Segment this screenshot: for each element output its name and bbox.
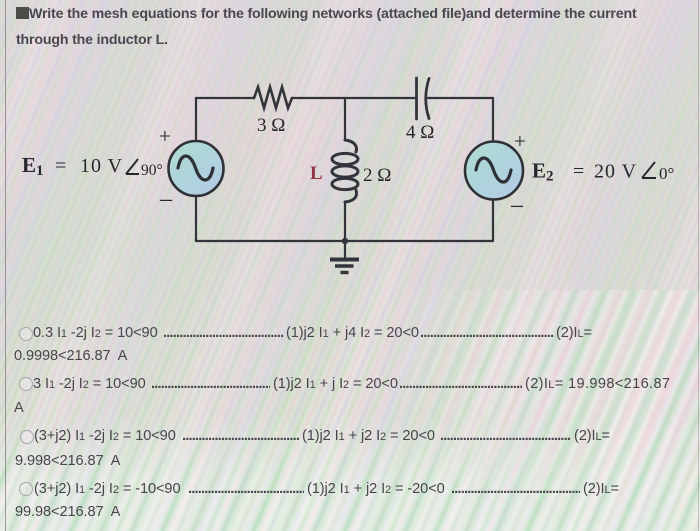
svg-text:+: + bbox=[514, 129, 526, 153]
wire bottom bbox=[196, 240, 493, 242]
question text bbox=[16, 1, 637, 53]
bottom strong mint stripes bbox=[0, 412, 700, 531]
wire top-left bbox=[196, 97, 254, 99]
svg-text:=: = bbox=[573, 161, 584, 183]
left screen edge bbox=[5, 0, 6, 531]
svg-text:=: = bbox=[55, 155, 66, 177]
wire right vertical bbox=[492, 98, 494, 142]
svg-text:90°: 90° bbox=[141, 162, 163, 179]
svg-text:E1: E1 bbox=[22, 153, 44, 179]
svg-text:4 Ω: 4 Ω bbox=[406, 122, 434, 143]
source E1 bbox=[169, 141, 224, 196]
svg-text:0°: 0° bbox=[659, 164, 674, 183]
source E2 bbox=[465, 142, 523, 200]
wire top-middle bbox=[292, 97, 416, 99]
svg-text:L: L bbox=[310, 163, 323, 184]
resistor R (3 ohm) bbox=[254, 87, 292, 108]
svg-text:10 V: 10 V bbox=[80, 155, 123, 177]
capacitor C (4 ohm) bbox=[417, 78, 430, 119]
svg-text:+: + bbox=[159, 124, 171, 148]
ground stub bbox=[344, 241, 346, 257]
wire middle branch bottom bbox=[344, 202, 346, 241]
svg-text:–: – bbox=[510, 192, 524, 218]
svg-text:E2: E2 bbox=[532, 159, 554, 185]
wire left vertical bbox=[195, 98, 197, 141]
wire middle branch top bbox=[344, 98, 346, 140]
wire top-right bbox=[428, 97, 493, 99]
circuit schematic SVG bbox=[0, 0, 700, 310]
svg-text:–: – bbox=[159, 186, 173, 212]
junction node bbox=[342, 238, 348, 244]
svg-text:20 V: 20 V bbox=[594, 161, 637, 183]
inductor L (2 ohm) bbox=[332, 140, 358, 202]
angle symbol E1 bbox=[126, 159, 139, 174]
svg-text:3 Ω: 3 Ω bbox=[257, 115, 285, 136]
ground symbol bbox=[330, 260, 359, 273]
svg-text:2 Ω: 2 Ω bbox=[363, 165, 391, 186]
angle symbol E2 bbox=[642, 162, 656, 178]
right screen edge bbox=[698, 0, 699, 531]
right-side stronger stripes in options area bbox=[400, 290, 700, 531]
